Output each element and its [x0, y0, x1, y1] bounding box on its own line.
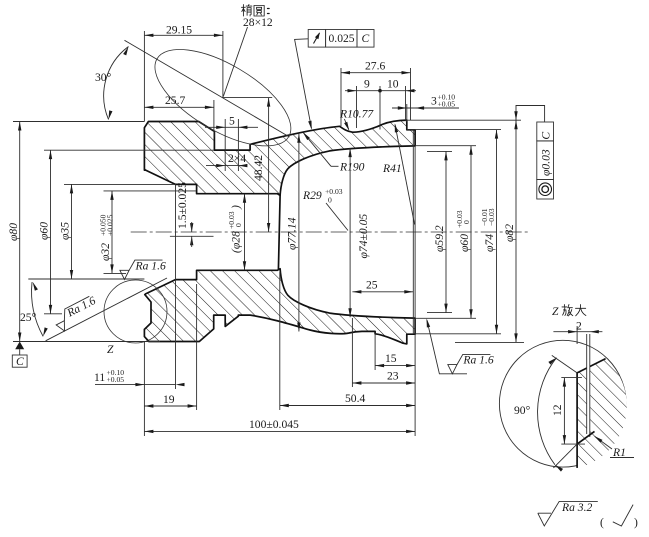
29.15 dimension: [144, 34, 223, 36]
svg-text:φ74: φ74: [483, 234, 496, 252]
phi82: [515, 120, 517, 342]
svg-text:5: 5: [229, 115, 235, 128]
svg-text:27.6: 27.6: [365, 60, 385, 73]
svg-text:−0.03: −0.03: [487, 208, 496, 226]
svg-text:φ74±0.05: φ74±0.05: [357, 214, 370, 259]
bore end face (upper): [276, 194, 280, 271]
svg-text:25°: 25°: [20, 311, 37, 324]
11 dimension: [95, 384, 176, 386]
phi60 extension lines: [44, 149, 214, 151]
centerline: [131, 231, 528, 233]
R190: [331, 165, 339, 167]
svg-text:48.42: 48.42: [252, 155, 265, 181]
svg-text:3: 3: [431, 95, 437, 108]
Ra1.6 on 25deg line: [51, 294, 101, 333]
30 deg arc: [104, 47, 129, 120]
Ra1.6 on phi35 line: [120, 259, 166, 279]
upper body section (hatched): [144, 120, 415, 195]
27.6 dimension: [341, 72, 411, 74]
svg-text:R29: R29: [302, 189, 322, 202]
svg-text:φ82: φ82: [503, 224, 516, 242]
5 dimension: [205, 126, 258, 128]
svg-text:φ80: φ80: [7, 223, 20, 241]
svg-text:15: 15: [385, 352, 397, 365]
48.42 reference line from ellipse center: [223, 97, 272, 99]
svg-text:2×4: 2×4: [228, 152, 246, 165]
detail bottom chamfer: [577, 431, 594, 444]
svg-text:φ32: φ32: [99, 243, 112, 261]
19 ext line: [196, 284, 198, 410]
phi60 dimension: [50, 150, 52, 314]
svg-text:): ): [634, 516, 638, 529]
9 / 10 dimension line: [345, 90, 416, 92]
25.7 dimension: [144, 106, 214, 108]
svg-text:19: 19: [163, 393, 175, 406]
chamfer extension thin lines: [552, 355, 577, 373]
phi80 dimension: [19, 122, 21, 342]
svg-text:): ): [230, 205, 243, 210]
ellipse label leader: [223, 27, 247, 97]
phi77.14 dimension: [298, 134, 300, 332]
ellipse (oblique cut): [140, 30, 305, 165]
svg-text:25: 25: [366, 279, 378, 292]
svg-text:φ60: φ60: [458, 234, 471, 252]
datum C symbol: [15, 342, 24, 350]
Z detail indicator circle on main view: [104, 280, 167, 343]
right face extension down: [414, 146, 416, 436]
5 dimension ext lines: [224, 119, 226, 171]
detail hatch region: [577, 359, 627, 468]
phi80 extension lines: [13, 121, 144, 123]
48.42 dimension: [268, 98, 270, 232]
eccentric axis line: [170, 235, 214, 237]
svg-text:+0.025: +0.025: [106, 214, 115, 236]
svg-text:Ra 3.2: Ra 3.2: [561, 501, 592, 514]
svg-text:23: 23: [387, 370, 399, 383]
svg-text:(φ28: (φ28: [230, 231, 243, 253]
2x4 dimension: [206, 165, 247, 167]
svg-text:Z: Z: [107, 343, 114, 356]
svg-text:1.5±0.025: 1.5±0.025: [176, 182, 189, 229]
svg-text:+0.05: +0.05: [438, 100, 456, 109]
svg-text:10: 10: [387, 78, 399, 91]
leader to surface: [295, 39, 312, 129]
svg-text:100±0.045: 100±0.045: [249, 418, 299, 431]
23 ext + dimension: [351, 318, 353, 387]
50.4 ext line: [279, 272, 281, 410]
detail view Z circle: [499, 340, 626, 467]
bracket to concentricity frame: [516, 106, 545, 123]
detail groove slot: [587, 362, 590, 434]
ext lines: [340, 68, 342, 126]
50.4 dimension: [280, 405, 415, 407]
R1: [595, 436, 612, 449]
left face extension up: [143, 31, 145, 122]
Ra1.6 leader lower right: [427, 320, 467, 374]
phi74+-0.05 dimension: [349, 148, 351, 317]
svg-text:12: 12: [551, 404, 564, 416]
svg-text:φ35: φ35: [59, 222, 72, 240]
100 dimension: [144, 430, 415, 432]
phi35 dimension: [71, 184, 73, 279]
phi28 +0.03/0 dimension: [244, 194, 246, 271]
90 deg arc: [538, 358, 557, 465]
svg-text:R41: R41: [382, 162, 402, 175]
runout symbol: [314, 33, 320, 44]
svg-text:C: C: [16, 355, 24, 368]
svg-text:R190: R190: [339, 161, 365, 174]
11 ext line: [175, 185, 177, 389]
phi74 -0.01/-0.03: [496, 130, 498, 334]
svg-text:0.025: 0.025: [329, 32, 355, 45]
right face chamfer line: [412, 130, 414, 334]
svg-text:30°: 30°: [95, 71, 112, 84]
svg-text:0: 0: [234, 223, 243, 227]
25 deg line: [46, 278, 167, 341]
svg-text:Z: Z: [552, 305, 559, 318]
svg-text:Ra 1.6: Ra 1.6: [462, 354, 493, 367]
left face extension down: [143, 342, 145, 437]
ellipse label (Chinese: tuoyuan): [242, 5, 270, 17]
svg-text:(: (: [600, 516, 604, 529]
svg-text:R10.77: R10.77: [339, 108, 374, 121]
15 ext + dimension: [374, 333, 376, 370]
ellipse center vertical line: [222, 31, 224, 98]
svg-text:0: 0: [328, 196, 332, 205]
svg-text:28×12: 28×12: [243, 16, 273, 29]
25 dimension (bore depth): [352, 291, 413, 293]
svg-text:2: 2: [576, 320, 582, 333]
25 deg arc: [32, 282, 44, 336]
phi32 extension lines: [104, 190, 197, 192]
12 dimension: [561, 377, 582, 379]
svg-text:25.7: 25.7: [165, 94, 185, 107]
2 dimension: [576, 326, 578, 344]
ext lines: [427, 150, 452, 152]
svg-text:Ra 1.6: Ra 1.6: [135, 259, 166, 272]
svg-text:9: 9: [364, 78, 370, 91]
svg-text:C: C: [539, 132, 552, 140]
svg-text:50.4: 50.4: [345, 392, 365, 405]
phi32 dimension: [111, 191, 113, 274]
svg-text:φ77.14: φ77.14: [286, 217, 299, 250]
1.5 +-0.025 offset dimension: [190, 223, 193, 232]
25.7 ext line: [213, 100, 215, 137]
svg-text:90°: 90°: [514, 404, 531, 417]
svg-text:+0.05: +0.05: [107, 375, 125, 384]
svg-text:φ0.03: φ0.03: [540, 149, 553, 176]
3 +0.10/+0.05 dimension: [406, 104, 408, 122]
phi35 extension lines: [64, 183, 176, 185]
svg-text:φ59.2: φ59.2: [433, 225, 446, 252]
svg-text:C: C: [362, 32, 370, 45]
19 dimension: [144, 405, 196, 407]
svg-text:+0.03: +0.03: [455, 210, 464, 228]
phi59.2: [445, 151, 447, 312]
lower body section (hatched): [144, 269, 415, 344]
svg-text:11: 11: [94, 371, 105, 384]
30 deg axis line through ellipse: [125, 40, 290, 137]
svg-text:φ60: φ60: [38, 222, 51, 240]
phi60 +0.03/0: [470, 146, 472, 319]
svg-text:0: 0: [462, 220, 471, 224]
svg-text:29.15: 29.15: [166, 24, 192, 37]
